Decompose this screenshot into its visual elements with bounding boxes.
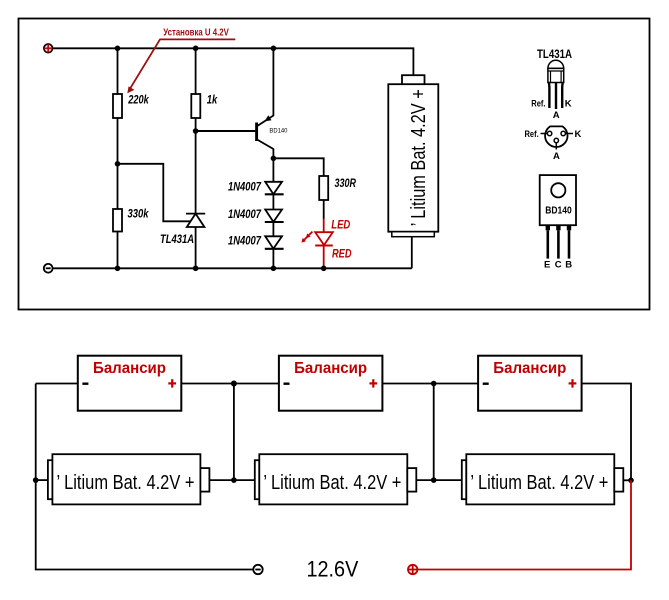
resistor R4 330R [319,176,356,200]
wire balancer1 plus to balancer2 minus [181,383,279,385]
wire base node to TL431A cathode [195,131,197,214]
TL431A bottom view pin A [553,138,560,162]
wire base to Q1 [196,130,256,132]
junction ground rail at TL431A [193,266,199,272]
wire link1 down to battery row [233,384,235,481]
TL431A bottom view pin K [561,129,582,140]
wire V+ to R3 [195,48,197,94]
junction top rail at R3 [193,46,199,52]
svg-text:’ Litium Bat. 4.2V +: ’ Litium Bat. 4.2V + [470,472,608,494]
junction ground rail at LED [321,266,327,272]
wire ref: divider to TL431A ref pin [118,164,191,222]
TL431A package title [537,49,572,61]
svg-text:RED: RED [332,249,352,261]
junction top rail at Q1 emitter [271,46,277,52]
svg-text:Ref.: Ref. [531,99,545,110]
svg-text:TL431A: TL431A [537,49,572,61]
svg-text:BD140: BD140 [545,205,572,217]
LED D4 red [315,219,351,260]
svg-text:E: E [544,260,550,271]
wire collector node to D1 [272,158,274,182]
svg-text:’ Litium Bat. 4.2V +: ’ Litium Bat. 4.2V + [263,472,401,494]
svg-text:’ Litium Bat. 4.2V +: ’ Litium Bat. 4.2V + [57,472,195,494]
TL431A pin labels front [531,99,572,122]
balancer module 2 [279,356,383,411]
wire battery bottom to ground rail [411,237,413,269]
schematic frame [19,19,650,310]
wire R3 to base node [195,118,197,131]
node V+ terminal (plus) [44,44,53,53]
junction ground rail at R2 [115,266,121,272]
label 12.6V [307,556,359,581]
battery BT3 [462,454,624,504]
node pack minus terminal [253,565,262,574]
wire top rail [53,48,413,75]
diode D2 1N4007 [228,209,284,222]
wire R2 to ground rail [117,232,119,269]
wire D2 to D3 [272,222,274,236]
svg-text:Ref.: Ref. [525,129,539,140]
wire D1 to D2 [272,194,274,209]
TL431A TO-92 front view [548,60,564,82]
svg-text:Балансир: Балансир [93,360,166,377]
svg-text:330R: 330R [335,178,357,190]
junction balancer link 2 [431,381,437,387]
transistor Q1 BD140 (PNP) [257,115,288,149]
junction left rail battery [33,477,39,483]
junction right rail battery [628,478,634,484]
svg-text:BD140: BD140 [269,127,287,134]
svg-text:A: A [553,110,560,121]
svg-text:K: K [575,129,582,140]
balancer module 1 [78,356,182,411]
balancer module 3 [478,356,581,411]
TL431A U1 shunt regulator symbol [160,214,205,246]
svg-text:1N4007: 1N4007 [228,236,261,248]
battery BT0 Litium 4.2V [388,75,438,237]
svg-text:LED: LED [331,219,350,231]
wire ground rail [53,267,412,269]
wire BT1 plus to BT2 minus [209,479,254,481]
svg-text:220k: 220k [127,95,149,107]
junction balancer link 1 [231,381,237,387]
wire collector to node [272,149,274,159]
svg-text:B: B [565,260,572,271]
battery BT1 [48,454,210,504]
TL431A bottom view body [545,126,567,147]
wire V+ to R1 [117,48,119,94]
svg-text:C: C [555,260,562,271]
svg-text:1N4007: 1N4007 [228,209,261,221]
wire emitter to top rail [272,48,274,116]
wire BT3 plus to right rail [623,479,631,481]
svg-text:Установка U 4.2V: Установка U 4.2V [163,27,229,39]
TL431A TO-92 legs [549,83,563,109]
resistor R1 220k [113,94,149,118]
wire right rail down (red) [418,480,631,569]
node base junction [193,128,199,134]
diode D1 1N4007 [228,182,284,195]
junction ground rail at D3 [271,266,277,272]
junction top rail at R1 [115,46,121,52]
wire collector node to R4 [273,158,323,176]
svg-text:K: K [565,99,572,110]
svg-text:A: A [553,151,560,162]
wire BT2 plus to BT3 minus [416,479,462,481]
junction battery link 2 [431,477,437,483]
annotation Установка U 4.2V [127,27,235,94]
wire balancer2 plus to balancer3 minus [382,383,478,385]
battery BT2 [255,454,416,504]
wire balancer3 plus right and down [582,384,631,481]
node divider junction [115,161,121,167]
svg-text:Балансир: Балансир [493,360,566,377]
wire link2 down to battery row [433,384,435,481]
resistor R2 330k [113,209,149,232]
wire R4 down (black part) [323,200,325,219]
svg-text:TL431A: TL431A [160,234,194,246]
wire LED to ground rail (red) [323,246,325,269]
node collector junction [271,156,277,162]
TL431A bottom view pin Ref [525,129,552,140]
wire R4 to LED (red) [323,219,325,233]
diode D3 1N4007 [228,236,284,249]
junction battery link 1 [231,477,237,483]
BD140 pin E [544,225,550,270]
node pack plus terminal (red) [408,565,417,574]
wire R1 to R2 [117,118,119,209]
node V- terminal (minus) [44,264,53,273]
wire left rail to BT1 minus [36,479,48,481]
LED emission arrows [301,232,312,243]
svg-text:1N4007: 1N4007 [228,182,261,194]
svg-text:’ Litium Bat. 4.2V +: ’ Litium Bat. 4.2V + [408,89,430,226]
BD140 pin B [565,225,572,270]
svg-text:1k: 1k [207,95,218,107]
svg-text:330k: 330k [128,209,149,221]
resistor R3 1k [191,94,217,118]
svg-text:12.6V: 12.6V [307,556,359,581]
BD140 TO-126 package body [540,175,576,225]
wire balancer1 minus to left rail [36,383,78,385]
wire left rail down [36,384,253,570]
BD140 pin C [555,225,562,270]
wire D3 to ground rail [272,249,274,268]
svg-text:Балансир: Балансир [294,360,367,377]
wire TL431A anode to ground rail [195,227,197,268]
